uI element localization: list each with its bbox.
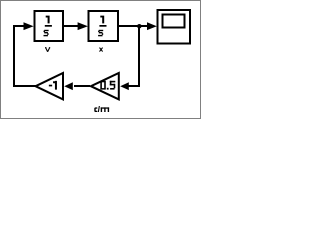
label c/m — [94, 106, 109, 112]
value label 1/s fraction bar — [45, 25, 52, 27]
gain G1 (0.5) — [91, 73, 119, 99]
arrowhead into gain 0.5 — [120, 82, 129, 90]
integrator U1 (v) — [35, 11, 63, 41]
value label 1/s denominator s — [44, 30, 49, 37]
value label 1/s fraction bar — [99, 25, 106, 27]
arrowhead into integrator v — [24, 22, 34, 30]
gain G2 (-1) — [36, 73, 63, 99]
wire v to x — [62, 25, 79, 27]
wire feedback loop — [14, 26, 36, 86]
wire 0.5 to -1 — [74, 85, 90, 87]
junction node — [137, 24, 141, 28]
integrator U2 (x) — [89, 11, 118, 41]
value label -1 — [49, 81, 57, 90]
arrowhead into scope — [147, 22, 157, 30]
scope screen — [163, 15, 185, 28]
arrowhead into gain -1 — [64, 82, 73, 90]
value label 0.5 — [100, 81, 115, 90]
value label 1/s numerator — [46, 16, 50, 24]
wire branch down — [127, 26, 139, 86]
label v — [45, 48, 50, 52]
border frame — [1, 1, 201, 119]
wire x to scope — [117, 25, 148, 27]
scope U3 — [158, 10, 190, 43]
label x — [100, 48, 103, 52]
arrowhead into integrator x — [78, 22, 88, 30]
value label 1/s numerator — [100, 16, 104, 24]
value label 1/s denominator s — [98, 30, 103, 37]
